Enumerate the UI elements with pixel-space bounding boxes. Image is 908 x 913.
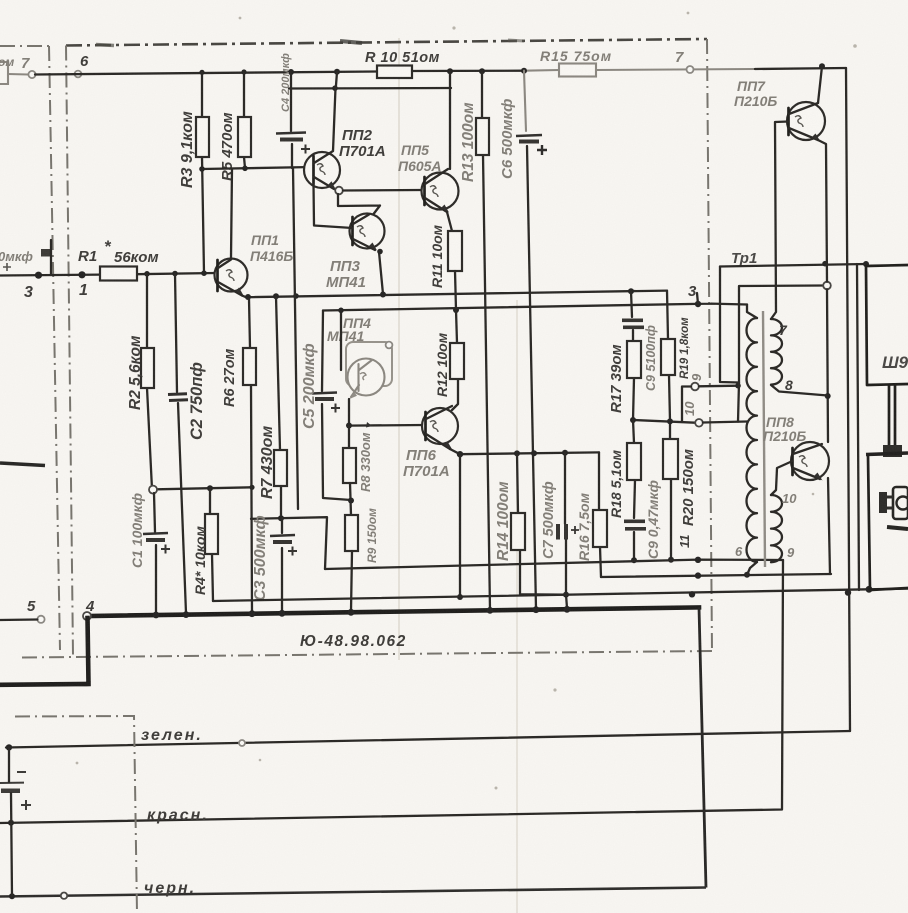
wire: node 4 drop (thick) [0,618,89,685]
wire: R9 bottom to ground bus [351,551,352,611]
node 9 [691,383,699,391]
screen-box right edge [707,39,712,651]
wire connector to terminal 7 [8,73,28,76]
node: rail junction dots [199,70,204,75]
wire: node 9 to transformer column [699,385,738,388]
capacitor C9 0,47mkf plates [624,520,645,524]
resistor R15 [559,64,596,77]
dash-dot frame of power unit [15,716,137,913]
capacitor C2 plates [168,394,188,401]
wire: PP8 collector down to line E [828,478,830,574]
resistor R3 column: rail to input line [202,72,204,273]
connector fragment at top-left edge [0,62,8,84]
connector stem [889,385,895,448]
node 3 tick to transformer [697,293,698,304]
transistor PP6 P701A [403,406,458,480]
resistor R20 [663,439,678,479]
capacitor C2 column [175,274,186,614]
wire: primary bottom pin to line E [747,562,757,575]
wire: PP6 emitter return down to line G [459,454,461,597]
wire: PP7 collector to rail [818,66,822,103]
connector box Sh9 [866,265,908,385]
wire: PP5 emitter to R11 [447,212,452,231]
resistor R20 column [670,479,672,560]
wire: feedback line A (PP1 emitter line) [242,291,667,298]
wire: black (chern) bottom line [0,888,706,897]
wire: PP3 base to PP2 base bar [314,184,353,228]
node 5 [37,616,44,623]
transformer Tr1 secondary II (pins 10-9) [771,495,782,562]
transformer Tr1 core [763,311,765,567]
wire: line D (common to red wire / secondary II) [325,560,783,569]
resistor R2 [141,348,154,388]
wire: emitter node line y518 [251,517,327,569]
resistor R14 [517,453,566,594]
wire: input line [0,273,216,276]
resistor R5 column [244,72,245,168]
wire: PP5 collector column from rail [449,71,451,169]
wire: emitter column continues to pin8 node and PP8 [827,289,828,442]
resistor R18 column [633,420,635,560]
capacitor C1 column [154,493,156,614]
capacitor C7 [565,453,567,608]
C1 plus sign [161,545,170,554]
resistor R4 [205,514,218,554]
wire: PP4 emitter to PP6 base line [349,399,424,426]
node 3 (input) [35,272,42,279]
transistor PP3 MP41 [326,214,385,292]
C6 plus sign [537,145,547,155]
terminal 7 (right) [687,66,694,73]
ground bus (thick common line) [88,607,699,616]
wire: node 9 link down to line C [682,387,691,423]
capacitor C6 plates [516,135,542,136]
wire: PP4 base from line B [340,310,342,370]
transistor PP2 P701A [304,127,386,189]
resistor R16 [599,452,601,577]
wire: PP2 emitter node down to PP3 collector [338,194,380,216]
wire: line G (R4 bottom long return) [213,589,908,601]
wire: secondary I pin 8 to node [771,385,828,396]
wire: sub-rail below R10 [289,87,451,90]
wire: right supply column down to green wire corner [846,68,850,731]
wire: cut stub at left edge [0,463,45,466]
wire: green (zelen) supply wire [6,731,850,748]
resistor R6 [243,348,256,385]
wire: line C (R17/R19 bottoms to node 10) [633,420,695,423]
fold line (faint) [398,38,400,660]
resistor R6 column [249,299,252,613]
capacitor C9 5100pf + resistor R17 column [631,291,634,420]
wire: primary top pin from node 3 [747,305,757,319]
fold line 2 (faint) [516,300,518,913]
battery GB [0,748,31,897]
wire: node line B [323,304,747,311]
transistor PP8 P210B [763,414,829,481]
resistor R9 [345,515,358,551]
terminal 7 (top-left) [28,71,35,78]
transistor PP7 P210B [734,78,825,142]
capacitor C5 column from line B [322,311,351,501]
wire: node 5 stub [0,618,37,621]
capacitor C4 column from rail [291,72,292,168]
resistor R3 [196,117,209,157]
wire: node line (R5 bottom / PP1 collector / PP2 base) [202,167,313,169]
wire: rail gray to terminal 7 right [596,69,755,70]
node 1 (input) [78,271,85,278]
resistor R4 column [210,488,213,601]
wire: rail dark right end [755,68,846,69]
wire: PP6 output line y453 [450,449,599,454]
node 10 [695,419,703,427]
screen-box left edge [66,46,73,656]
transistor PP5 P605A [398,142,459,213]
wire: R8 bottom to R9 [350,483,351,515]
loudspeaker plug icon [879,487,908,529]
resistor R5 [238,117,251,157]
capacitor C1 plates [143,533,168,534]
resistor R7 column [276,296,281,518]
resistor R12 column [452,310,458,410]
wire: rail gray segment [524,69,559,72]
wire: PP7 emitter column [818,140,827,282]
scan texture overlay [0,0,1,1]
wire: rail between R10 and C6 node [412,70,524,73]
node 4 [83,612,91,620]
capacitor C5 plates [312,393,337,394]
screen-box bottom edge [22,651,712,658]
wire: R11 bottom to node line B [455,271,456,310]
transistor PP4 MP41 (with grey outline box) [327,315,392,399]
resistor R11 [448,231,462,271]
capacitor C6 column [524,71,526,131]
C5 plus sign [331,404,340,413]
screen-box of amplifier: dash-dot border [66,39,707,46]
wire: thick right drop of ground bus [699,607,706,887]
screen-box outer left dash-dot line [0,46,60,650]
C4 plus sign [301,145,310,154]
resistor R17 [627,341,641,378]
ground bus junction dots [153,612,160,619]
transformer Tr1 primary winding [746,318,757,562]
resistor R10 [377,66,412,79]
wire: top link line y265 [720,264,866,267]
wire: Sh9 feed vertical to green corner [857,264,859,590]
wire: top supply rail (left part) [35,72,377,75]
wire: PP2 collector to rail [333,72,337,151]
wire: vertical from PP2 base line down across A and B [293,168,298,509]
resistor R8 [348,426,350,448]
transformer Tr1 secondary I (pins 7-8) [771,319,782,385]
scan speckles [340,41,362,43]
input line junction dots [144,271,150,277]
wire: line E (R16 to PP8 collector) [601,574,831,577]
capacitor C3 [281,518,283,612]
wire: PP3 emitter down to feedback line [379,252,383,294]
resistor R2 column [147,274,152,489]
loudspeaker box [866,453,908,590]
wire: PP1 collector [231,169,232,259]
wire: node 10 to transformer tap [703,422,747,423]
resistor R1 [100,267,137,281]
resistor R18 [627,443,641,480]
capacitor C9 plates [622,319,643,323]
resistor R12 [450,343,464,379]
capacitor C4 plates [276,133,306,134]
resistor R13 [476,118,489,155]
wire: junction line (C1/R4 tops) [157,487,252,489]
wire: PP7 base column to secondary I pin 7 [771,122,789,320]
wire: red (krasn) wire [0,560,783,823]
resistor R13 column from rail to ground bus [482,71,490,610]
wire: PP2 emitter node to PP5 base [335,187,343,195]
wire: PP8 base to secondary II pin 10 [771,461,793,495]
wire: R19 column from line A corner [667,291,670,439]
terminal 6 on rail [75,71,82,78]
feed-through capacitor on screen wall [41,249,52,257]
resistor R19 [661,339,675,375]
wire: transformer aux loop (pin3 area) [720,267,739,422]
resistor R7 [274,450,287,486]
transistor PP1 P416B [215,232,294,296]
